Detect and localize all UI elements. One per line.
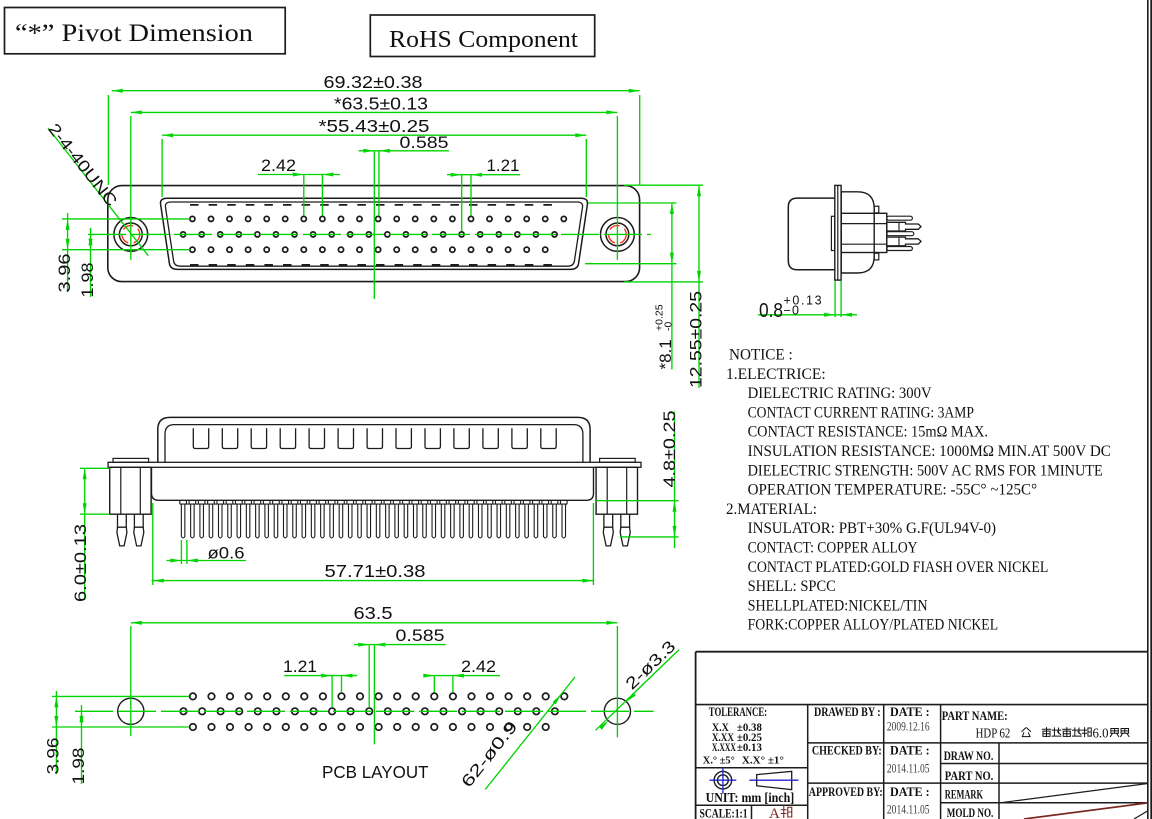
svg-text:0.8: 0.8 (759, 300, 783, 322)
svg-text:1.21: 1.21 (487, 157, 520, 175)
svg-text:0.585: 0.585 (396, 627, 445, 645)
svg-text:2.42: 2.42 (261, 157, 296, 175)
projection symbol blue crosshair (710, 779, 737, 781)
svg-text:ø0.6: ø0.6 (208, 544, 245, 563)
callout 62-diameter0.9 leader (485, 677, 575, 790)
svg-text:DIELECTRIC RATING: 300V: DIELECTRIC RATING: 300V (748, 384, 932, 402)
pcb layout right hole vertical centerline (616, 626, 618, 737)
svg-text:DRAWED BY :: DRAWED BY : (814, 704, 881, 719)
front view left mounting hole thread circle (red dashed) (122, 226, 140, 244)
svg-text:PCB LAYOUT: PCB LAYOUT (322, 762, 429, 782)
sheet right border inner line (1150, 0, 1152, 819)
side view rear plate (831, 216, 834, 250)
dimension 0.585 (front, center offset) (359, 150, 449, 152)
dimension 1.21 (front row offset) (447, 174, 520, 176)
projection symbol circles (714, 771, 732, 789)
svg-text:DATE :: DATE : (890, 743, 930, 758)
front view top pin row extension line (62, 218, 190, 220)
svg-text:X.X° ±1°: X.X° ±1° (742, 755, 784, 767)
side view flange plate (835, 185, 841, 280)
title block horizontal line y=805.2 (symbol cell bottom) (696, 804, 808, 806)
svg-text:A: A (769, 806, 780, 819)
side view pin bottom (887, 247, 913, 251)
svg-text:CONTACT PLATED:GOLD FIASH OVER: CONTACT PLATED:GOLD FIASH OVER NICKEL (748, 558, 1049, 576)
side view flange plate mid line (837, 185, 839, 280)
svg-text:APPROVED BY:: APPROVED BY: (809, 784, 883, 799)
svg-text:12.55±0.25: 12.55±0.25 (687, 291, 706, 388)
front view contact pins row 2 (21 pins) (181, 232, 558, 237)
dimension 1.21 (pcb) (284, 675, 357, 677)
svg-text:CONTACT RESISTANCE: 15mΩ MAX.: CONTACT RESISTANCE: 15mΩ MAX. (748, 423, 988, 441)
title block vertical line x=751.5 (scale cell divider) (751, 805, 753, 819)
mold no cell diagonal line (dark red) (1024, 803, 1148, 819)
dimension 3.96 (front rows span) (67, 213, 69, 292)
svg-text:CONTACT: COPPER ALLOY: CONTACT: COPPER ALLOY (748, 539, 918, 557)
front view right mounting hole outer circle (601, 218, 635, 252)
svg-text:2009.12.16: 2009.12.16 (887, 719, 930, 734)
svg-text:CONTACT CURRENT RATING: 3AMP: CONTACT CURRENT RATING: 3AMP (748, 403, 974, 421)
front right shield bottom extension line (585, 263, 677, 265)
section view right fork top tab (600, 458, 636, 462)
title block horizontal line y=742.9 (808, 742, 1148, 744)
svg-text:TOLERANCE:: TOLERANCE: (709, 705, 767, 719)
svg-text:*8.1: *8.1 (656, 339, 675, 369)
side view insulator body (841, 192, 874, 273)
title block vertical line x=999 (label/value divider) (998, 743, 1000, 819)
svg-text:RoHS Component: RoHS Component (389, 27, 578, 53)
title block horizontal line y=767.7 (tolerance cell bottom) (696, 767, 808, 769)
title block outer border (696, 651, 1148, 653)
dimension 69.32+-0.38 top (112, 90, 640, 92)
dimension 12.55+-0.25 (right vertical) (698, 185, 700, 388)
bottom right corner diagonal (black) (1134, 811, 1148, 819)
svg-text:UNIT: mm [inch]: UNIT: mm [inch] (706, 790, 795, 805)
svg-text:1.98: 1.98 (79, 263, 97, 298)
svg-text:MOLD NO.: MOLD NO. (947, 805, 994, 819)
svg-text:CHECKED BY:: CHECKED BY: (812, 743, 882, 758)
side view fork upper (side profile) (887, 222, 921, 231)
dimension 2.42 (front pin pitch) (258, 174, 340, 176)
note box "RoHS Component" (370, 15, 594, 57)
svg-text:REMARK: REMARK (945, 787, 984, 802)
dimension 1.98 (pcb) (81, 705, 83, 784)
svg-text:2.42: 2.42 (461, 658, 496, 676)
front view contact pins row 3 (20 pins) (190, 247, 548, 252)
dimension 4.8+-0.25 (section right) (595, 500, 679, 502)
dimension 3.96 (pcb) (55, 691, 57, 774)
front view left mounting hole outer circle (114, 218, 148, 252)
dimension 0.8 +0.13/-0 (side view) (834, 281, 836, 317)
front view bottom pin row extension line (62, 249, 190, 251)
remark cell diagonal line (1000, 784, 1148, 803)
section view left fork top tab (113, 458, 149, 462)
svg-text:FORK:COPPER ALLOY/PLATED NICKE: FORK:COPPER ALLOY/PLATED NICKEL (748, 616, 999, 634)
dimension *55.43+-0.25 (162, 134, 586, 136)
side view insulator top tab (874, 206, 879, 213)
svg-text:SCALE:1:1: SCALE:1:1 (700, 806, 748, 819)
svg-text:±0.13: ±0.13 (737, 740, 762, 754)
svg-text:4.8±0.25: 4.8±0.25 (661, 411, 679, 488)
title block vertical line x=940.6 (940, 705, 942, 819)
svg-text:*55.43±0.25: *55.43±0.25 (319, 116, 430, 136)
title block vertical line x=883.7 (883, 705, 885, 819)
side view contact block (841, 213, 887, 252)
section view shell cover inner line (165, 425, 583, 462)
side view insulator bottom tab (874, 253, 879, 260)
svg-text:HDP 62: HDP 62 (976, 726, 1011, 741)
pcb layout left hole vertical centerline (130, 626, 132, 736)
svg-text:1.ELECTRICE:: 1.ELECTRICE: (726, 365, 826, 383)
svg-text:*63.5±0.13: *63.5±0.13 (334, 94, 428, 114)
svg-text:OPERATION TEMPERATURE: -55C° ~: OPERATION TEMPERATURE: -55C° ~125C° (748, 481, 1038, 499)
svg-text:SHELLPLATED:NICKEL/TIN: SHELLPLATED:NICKEL/TIN (748, 596, 928, 614)
section view shell vent slots (13) (193, 428, 556, 448)
front view horizontal centerline (middle pin row) (88, 233, 651, 235)
dimension 1.98 (front row offset) (90, 228, 92, 297)
section view 42 solder pins (180, 500, 567, 538)
section view left fork body (110, 467, 151, 514)
front view left mounting hole inner circle (119, 223, 142, 246)
svg-text:2014.11.05: 2014.11.05 (887, 801, 930, 816)
pcb layout holes row 3 (20) (190, 724, 549, 731)
pcb layout horizontal centerline (75, 710, 654, 712)
svg-text:2.MATERIAL:: 2.MATERIAL: (726, 500, 817, 518)
sheet right border outer line (1147, 0, 1149, 819)
svg-text:6.0±0.13: 6.0±0.13 (72, 524, 90, 602)
front right flange top extension line (624, 184, 703, 186)
notice text block (726, 346, 1111, 634)
svg-text:2014.11.05: 2014.11.05 (887, 761, 930, 776)
front view insulator hidden edge bottom dashed (190, 264, 558, 266)
svg-text:3.96: 3.96 (45, 738, 63, 775)
side view pin top (887, 216, 913, 220)
svg-text:69.32±0.38: 69.32±0.38 (324, 72, 423, 92)
svg-text:1.98: 1.98 (70, 748, 88, 785)
title block horizontal line y=783.1 (808, 782, 1148, 784)
pcb layout center vertical line (373, 645, 375, 745)
pcb layout holes row 1 (21) (190, 693, 568, 700)
projection symbol cone centerline (749, 779, 798, 781)
pcb bottom pin row extension line (52, 726, 189, 728)
title block vertical line x=807.7 (807, 705, 809, 819)
section view shell cover outline (158, 417, 590, 462)
dimension *8.1 +0.25/-0 (right vertical) (671, 203, 673, 370)
dimension 6.0+-0.13 (section left) (80, 467, 110, 469)
svg-text:DIELECTRIC STRENGTH: 500V AC R: DIELECTRIC STRENGTH: 500V AC RMS FOR 1MI… (748, 461, 1103, 479)
svg-text:DATE :: DATE : (890, 704, 930, 719)
front view flange outline (108, 186, 640, 282)
svg-text:INSULATOR: PBT+30% G.F(UL94V-0: INSULATOR: PBT+30% G.F(UL94V-0) (748, 519, 996, 537)
front view insulator hidden edge top dashed (190, 204, 558, 206)
front view D-shield outer contour (161, 198, 588, 269)
front view contact pins row 1 (21 pins) (190, 216, 567, 221)
section view right fork prongs (604, 514, 613, 527)
dimension 57.71+-0.38 (section body width) (152, 503, 154, 585)
svg-text:“*” Pivot Dimension: “*” Pivot Dimension (15, 20, 254, 47)
note box "Pivot Dimension" (5, 8, 286, 54)
title block horizontal line y=802.7 (remark row bottom) (941, 802, 1148, 804)
svg-text:63.5: 63.5 (354, 603, 393, 623)
svg-text:-0: -0 (663, 322, 675, 331)
thread callout 2-4-40UNC leader line (48, 128, 148, 256)
svg-text:3.96: 3.96 (56, 254, 74, 293)
svg-text:DATE :: DATE : (890, 784, 930, 799)
section view right fork body (596, 467, 637, 514)
dimension diameter 0.6 (pin) (180, 540, 182, 564)
svg-text:DRAW NO.: DRAW NO. (944, 748, 994, 763)
svg-text:PART NO.: PART NO. (945, 768, 994, 783)
svg-text:1.21: 1.21 (283, 658, 317, 676)
svg-text:57.71±0.38: 57.71±0.38 (325, 561, 426, 581)
front right flange bottom extension line (624, 281, 703, 283)
svg-text:INSULATION RESISTANCE: 1000MΩ: INSULATION RESISTANCE: 1000MΩ MIN.AT 500… (748, 442, 1111, 460)
side view mating shell (788, 198, 835, 270)
section view flange strip (108, 462, 641, 467)
dimension 63.5 (between fork centers) (131, 622, 618, 624)
section view left fork prongs (118, 514, 127, 527)
side view contact block line 2 (841, 243, 887, 245)
svg-text:X.XXX: X.XXX (712, 740, 736, 754)
side view contact block line 1 (841, 223, 887, 225)
projection symbol cone outline (757, 771, 792, 789)
front view right mounting hole inner circle (606, 223, 629, 246)
svg-text:NOTICE :: NOTICE : (729, 346, 793, 364)
side view pin middle (887, 232, 914, 236)
front right shield top extension line (588, 202, 677, 204)
title block horizontal line y=763.5 (draw no row) (941, 763, 1148, 765)
dimension 2.42 (pcb) (426, 675, 500, 677)
side view fork lower (side profile) (887, 237, 921, 246)
pcb layout right mounting hole (604, 698, 630, 724)
pcb layout holes row 2 (21) (180, 708, 558, 715)
callout 2-diameter3.3 leader (596, 650, 680, 731)
svg-text:X.° ±5°: X.° ±5° (703, 755, 735, 767)
section view insulator body (152, 467, 594, 500)
pcb top pin row extension line (52, 695, 189, 697)
dimension *63.5+-0.13 (131, 111, 618, 113)
svg-text:PART NAME:: PART NAME: (942, 708, 1008, 723)
svg-text:0.585: 0.585 (400, 134, 449, 152)
svg-text:−0: −0 (784, 303, 801, 317)
front view D-shield inner contour (165, 202, 582, 266)
title block horizontal line y=704.6 (696, 704, 1148, 706)
svg-text:6.0: 6.0 (1093, 726, 1109, 741)
pcb layout left mounting hole (118, 698, 144, 724)
front view right mounting hole thread circle (red dashed) (609, 226, 627, 244)
dimension 0.585 (pcb) (354, 644, 446, 646)
svg-text:SHELL: SPCC: SHELL: SPCC (748, 577, 836, 595)
